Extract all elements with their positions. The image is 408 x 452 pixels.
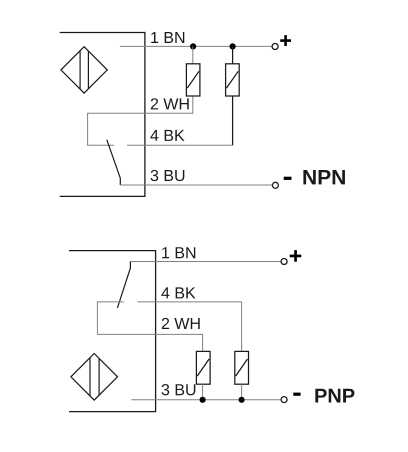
wire 1 BN (top)	[120, 45, 272, 47]
sensor outline (top, open left side)	[60, 33, 145, 197]
pin label 2 WH (top)	[151, 98, 189, 109]
terminal circle - NPN	[272, 182, 278, 188]
pin label 3 BU (top)	[151, 170, 185, 181]
wire: 4 BK up to load resistor 2 (black)	[232, 96, 234, 145]
wire: switch contact to 2 WH (bottom)	[97, 302, 202, 352]
pin label 2 WH (bottom)	[162, 318, 200, 329]
wire: dot 2 down to resistor 2	[232, 46, 234, 63]
terminal circle + (bottom)	[281, 259, 287, 265]
pin label 4 BK (top)	[150, 130, 184, 141]
pin label 1 BN (top)	[151, 32, 184, 43]
junction dot 1 (1 BN / resistor 1)	[190, 43, 196, 49]
wire 3 BU (bottom)	[131, 399, 281, 401]
output label NPN	[303, 170, 345, 184]
wire 3 BU (top)	[120, 184, 272, 186]
output label PNP	[315, 389, 354, 403]
pin label 4 BK (bottom)	[161, 287, 195, 298]
wire: resistor 1 down to 3 BU (bottom)	[202, 384, 204, 400]
wire 4 BK (bottom): contact right then down to load resistor 2	[137, 302, 241, 352]
wire 2 WH (top): from switch contact up-and-right to load resistor 1	[88, 96, 193, 145]
terminal circle - PNP	[281, 397, 287, 403]
load resistor 1 (top)	[186, 64, 200, 96]
plus sign (bottom)	[290, 250, 302, 262]
switch blade (bottom, from 1 BN)	[117, 262, 130, 308]
junction dot 2 (3 BU / resistor 2)	[239, 397, 245, 403]
pin label 3 BU (bottom)	[162, 384, 196, 395]
wire: dot 1 down to resistor 1	[192, 46, 194, 63]
junction dot 1 (3 BU / resistor 1)	[200, 397, 206, 403]
wire 4 BK (top): from switch contact right then up to load resistor 2	[127, 144, 233, 146]
pin label 1 BN (bottom)	[162, 247, 195, 258]
sensor symbol (diamond with two bars)	[61, 47, 107, 93]
junction dot 2 (1 BN / resistor 2)	[230, 43, 236, 49]
plus sign (top)	[280, 35, 291, 46]
load resistor 2 (bottom)	[235, 351, 249, 384]
switch blade (top)	[107, 140, 121, 185]
minus sign (NPN)	[284, 177, 292, 180]
load resistor 2 (top)	[226, 64, 240, 96]
sensor symbol (diamond with two bars)	[71, 354, 118, 401]
wire: resistor 2 down to 3 BU (bottom)	[241, 384, 243, 400]
load resistor 1 (bottom)	[196, 351, 210, 384]
wire 1 BN (bottom)	[130, 261, 280, 263]
sensor outline (bottom, open left side)	[69, 251, 156, 412]
terminal circle + (top)	[272, 44, 278, 50]
minus sign (PNP)	[293, 393, 300, 396]
